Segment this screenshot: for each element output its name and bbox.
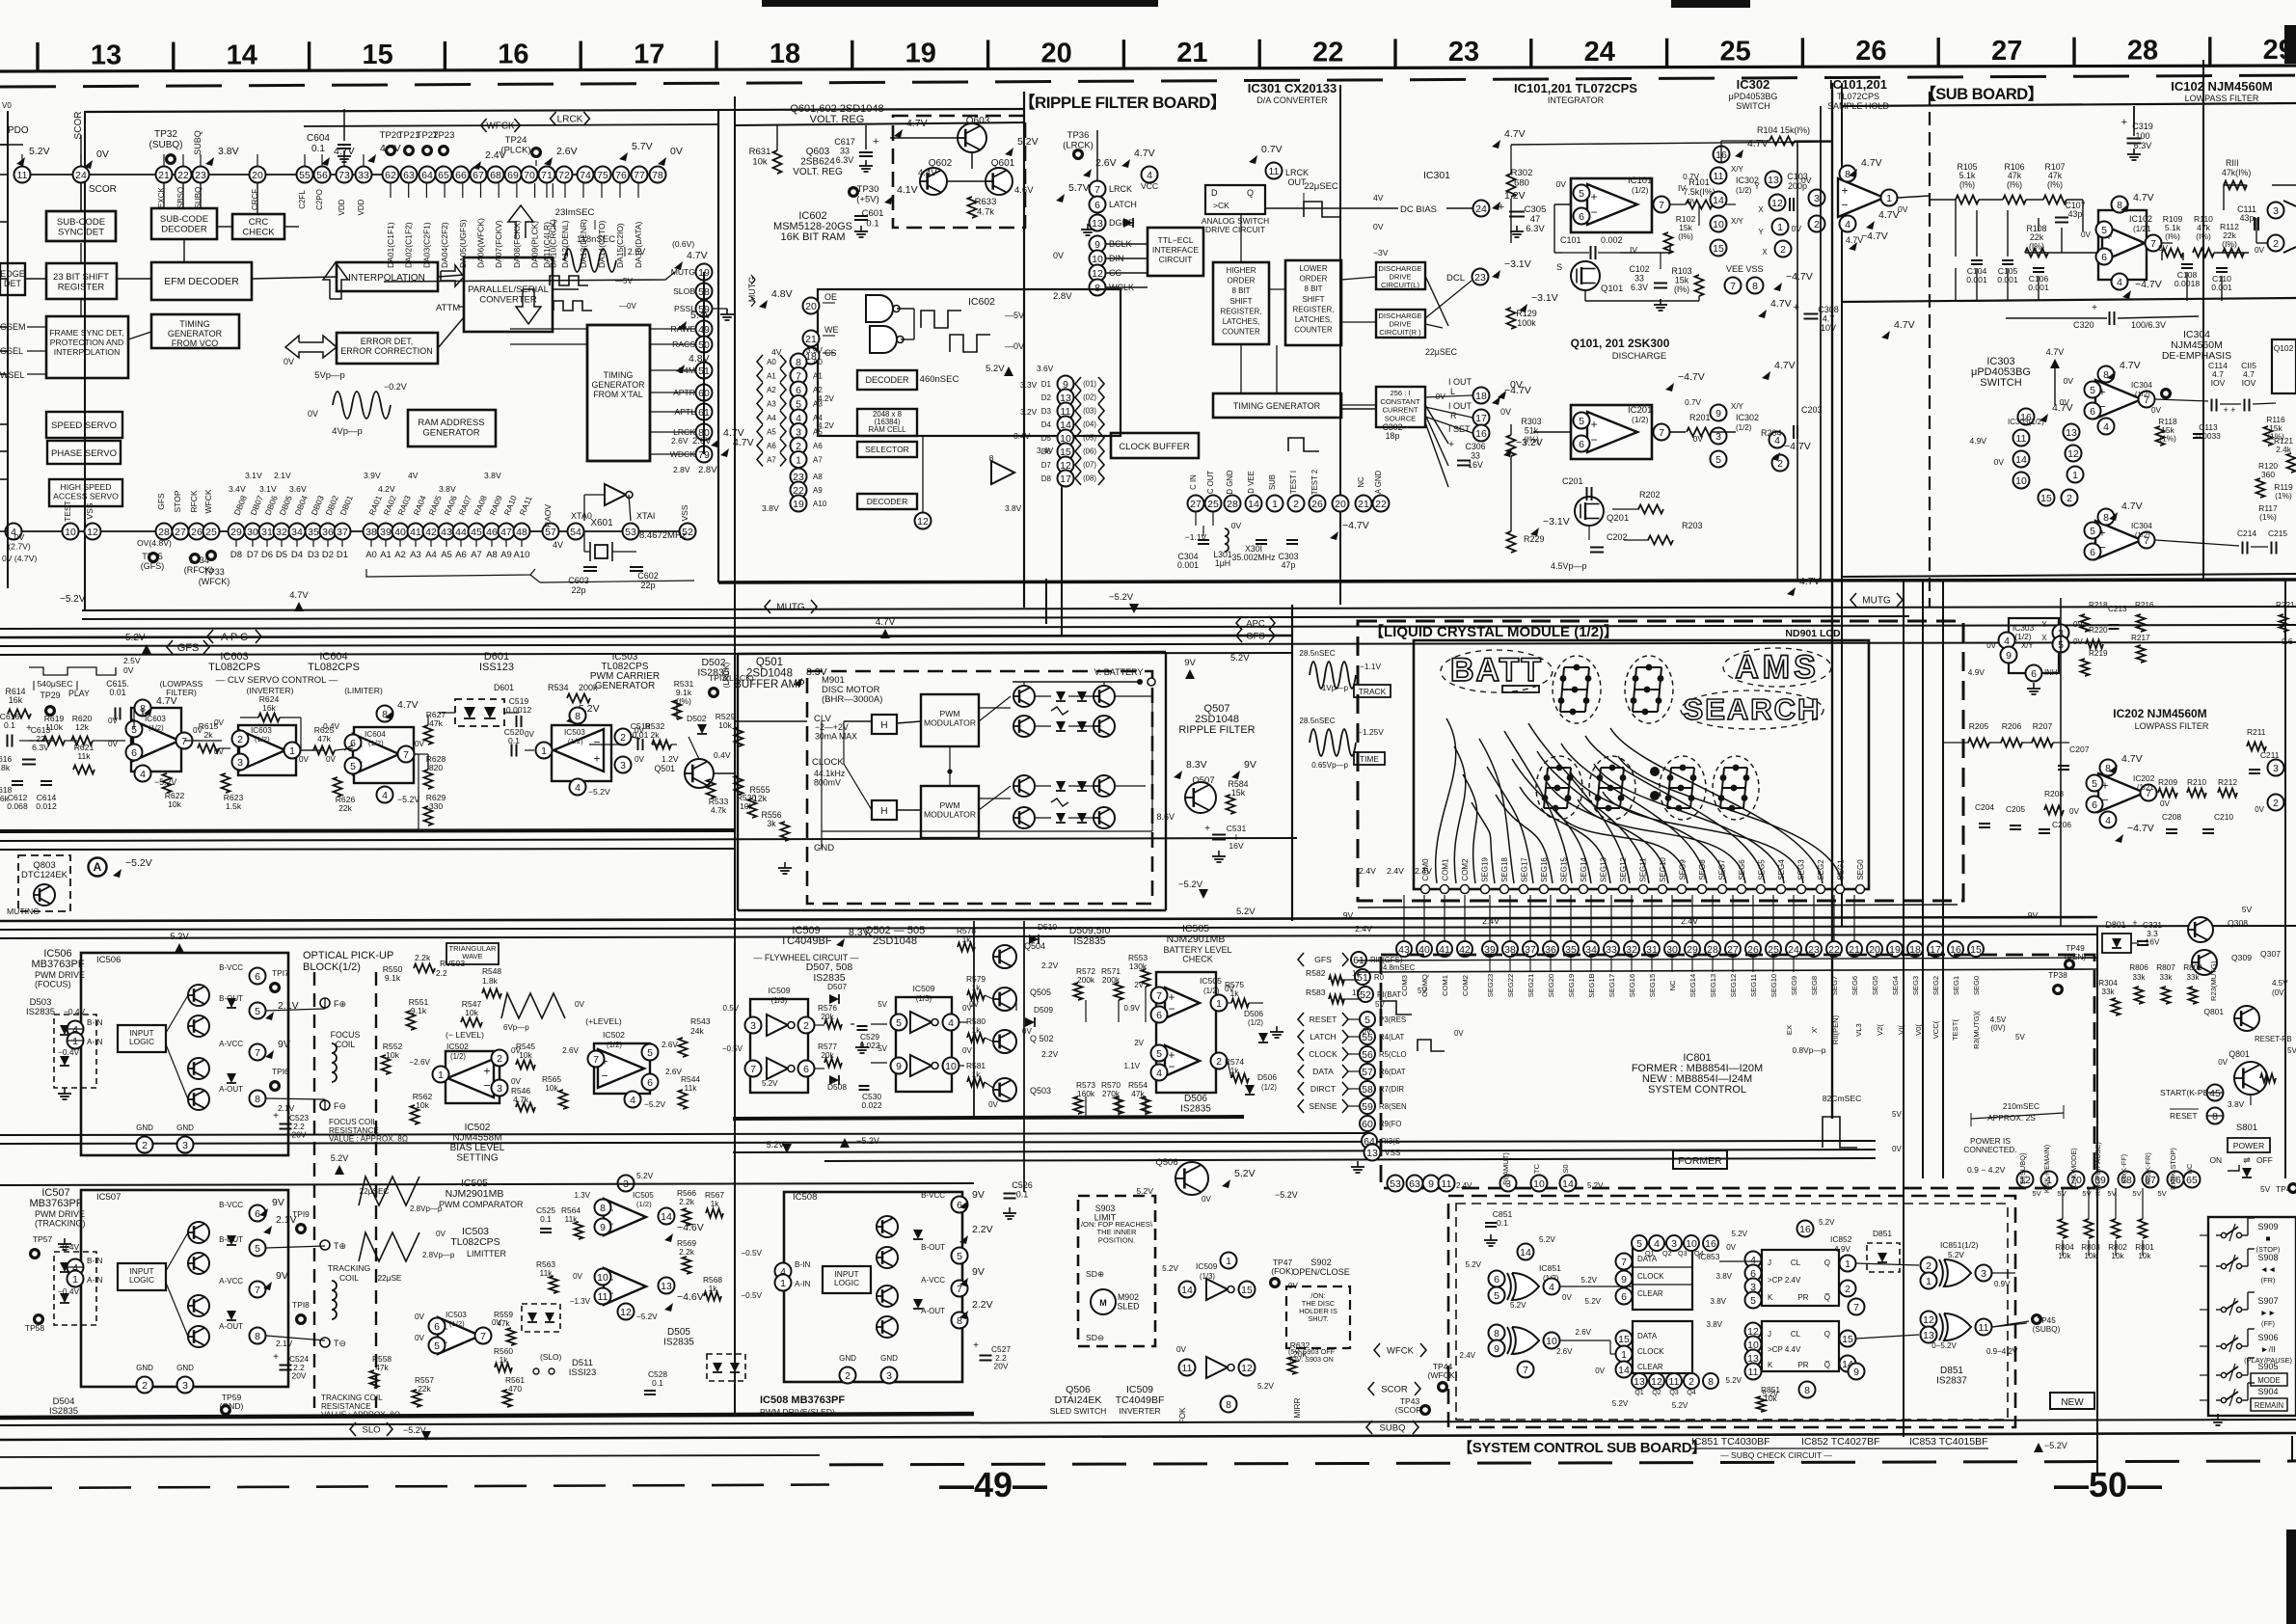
svg-text:COIL: COIL xyxy=(336,1040,356,1049)
svg-text:5: 5 xyxy=(2092,778,2097,790)
svg-text:TRACKING COIL: TRACKING COIL xyxy=(321,1394,383,1402)
svg-text:14: 14 xyxy=(1520,1247,1531,1259)
svg-text:71: 71 xyxy=(541,170,553,181)
svg-text:4.6V: 4.6V xyxy=(1014,185,1034,196)
svg-text:4.7V: 4.7V xyxy=(723,427,744,439)
box 23 BIT SHIFT REGISTER xyxy=(46,263,117,299)
svg-text:SEG6: SEG6 xyxy=(1850,976,1859,995)
wire bottom line y1477 xyxy=(0,1420,2296,1425)
svg-text:S0: S0 xyxy=(1561,1164,1570,1173)
svg-text:R203: R203 xyxy=(1682,521,1703,530)
svg-text:2.4V: 2.4V xyxy=(1415,866,1432,876)
svg-text:+: + xyxy=(593,751,600,765)
svg-text:22μSEC: 22μSEC xyxy=(1425,347,1458,357)
svg-text:16k: 16k xyxy=(9,695,23,705)
svg-text:DA04(C2F2): DA04(C2F2) xyxy=(440,222,449,268)
svg-text:0V: 0V xyxy=(96,149,109,160)
svg-text:IC302: IC302 xyxy=(1736,413,1759,422)
svg-text:0V: 0V xyxy=(2151,406,2162,415)
svg-text:4.7V: 4.7V xyxy=(2121,501,2143,512)
svg-text:R207: R207 xyxy=(2033,721,2053,731)
svg-text:CHECK: CHECK xyxy=(242,228,275,238)
left pin column RAWE RACS C4M APTR APTL LRCK WDCK rows xyxy=(696,264,713,281)
svg-text:8: 8 xyxy=(1226,1399,1231,1411)
svg-text:D5: D5 xyxy=(276,550,287,560)
svg-text:4.7V: 4.7V xyxy=(1846,235,1863,245)
svg-text:0V: 0V xyxy=(284,357,294,366)
box RAM ADDRESS GENERATOR xyxy=(408,410,496,447)
opamp IC505 a xyxy=(604,1199,646,1235)
svg-text:SPEED SERVO: SPEED SERVO xyxy=(51,420,117,431)
svg-text:0V: 0V xyxy=(123,665,134,675)
svg-text:CLEAR: CLEAR xyxy=(1637,1289,1663,1298)
svg-text:−: − xyxy=(1168,1002,1175,1015)
svg-text:—5V: —5V xyxy=(615,277,633,285)
svg-text:EX: EX xyxy=(1785,1025,1794,1035)
svg-text:9V: 9V xyxy=(272,1197,284,1208)
svg-text:3.8V: 3.8V xyxy=(1716,1272,1733,1281)
svg-text:0V: 0V xyxy=(1202,1195,1211,1204)
labels GFS R0 BATT pins right column xyxy=(1351,952,1366,967)
svg-text:BATT: BATT xyxy=(1450,652,1543,689)
svg-text:4V: 4V xyxy=(408,471,419,480)
svg-text:9: 9 xyxy=(1853,1367,1859,1378)
svg-text:9: 9 xyxy=(2006,650,2012,662)
svg-text:FRAME SYNC DET,: FRAME SYNC DET, xyxy=(49,328,123,338)
svg-text:2.6V: 2.6V xyxy=(665,1068,682,1076)
svg-text:−0.5V: −0.5V xyxy=(741,1249,762,1258)
svg-text:3.8V: 3.8V xyxy=(1707,1320,1723,1329)
svg-text:6: 6 xyxy=(2092,799,2097,811)
wire vertical trunk x1864 xyxy=(1796,142,1798,580)
svg-text:A P C: A P C xyxy=(221,632,248,643)
svg-text:8.4672MHz: 8.4672MHz xyxy=(639,530,687,541)
svg-text:0.01: 0.01 xyxy=(109,688,125,697)
svg-text:2: 2 xyxy=(2273,798,2279,809)
svg-text:11: 11 xyxy=(1442,1178,1452,1190)
svg-text:5.2V: 5.2V xyxy=(29,146,50,157)
svg-text:18: 18 xyxy=(770,39,800,69)
svg-text:IC101,201: IC101,201 xyxy=(1829,77,1887,92)
svg-text:DA06(WFCK): DA06(WFCK) xyxy=(476,218,486,268)
svg-text:INTERPOLATION: INTERPOLATION xyxy=(348,273,425,284)
svg-text:R6(DAT: R6(DAT xyxy=(1379,1068,1406,1076)
svg-text:2SB624: 2SB624 xyxy=(800,157,835,168)
op-amp IC101 1/2 sample hold right xyxy=(1838,178,1884,217)
pin row2 group y551 xyxy=(14,530,688,532)
svg-text:A6: A6 xyxy=(813,442,823,450)
LCD 7-segment digit 6 bottom xyxy=(1724,767,1747,769)
diodes D504 left xyxy=(54,1252,96,1325)
svg-text:PWM COMPARATOR: PWM COMPARATOR xyxy=(439,1200,524,1209)
svg-text:(0V): (0V) xyxy=(1990,1024,2005,1033)
svg-text:SCOR: SCOR xyxy=(89,184,117,195)
svg-text:D8: D8 xyxy=(1041,474,1052,483)
svg-text:+: + xyxy=(1590,190,1597,203)
svg-text:5.2V: 5.2V xyxy=(1948,1251,1964,1259)
svg-text:14: 14 xyxy=(1248,499,1259,510)
svg-text:RIII: RIII xyxy=(2226,158,2239,168)
svg-text:0V: 0V xyxy=(1362,1027,1371,1036)
svg-text:A8: A8 xyxy=(813,473,823,481)
wire LCD bottom bus y940 xyxy=(1358,905,1958,907)
svg-text:24: 24 xyxy=(1584,37,1615,68)
svg-text:(1/2): (1/2) xyxy=(1736,186,1752,195)
second opamp IC304 lower xyxy=(2095,521,2142,559)
pins 3 right top xyxy=(618,1176,635,1192)
svg-text:67: 67 xyxy=(473,170,484,181)
svg-text:SUBQ: SUBQ xyxy=(193,130,203,155)
svg-text:2: 2 xyxy=(142,1140,148,1151)
svg-text:0V: 0V xyxy=(511,1077,522,1086)
wire sub board bus y110 xyxy=(1842,103,2296,106)
svg-text:IC603: IC603 xyxy=(145,715,166,723)
svg-text:3.6V: 3.6V xyxy=(289,484,307,494)
svg-text:−: − xyxy=(1841,199,1848,212)
svg-text:10: 10 xyxy=(597,1272,608,1284)
svg-text:K: K xyxy=(1768,1361,1773,1369)
svg-text:7: 7 xyxy=(1621,1257,1627,1268)
svg-text:−3V: −3V xyxy=(1373,248,1389,257)
svg-text:DIRCT: DIRCT xyxy=(1310,1084,1337,1094)
transistor Q502 xyxy=(993,1030,1016,1053)
svg-text:SEG23: SEG23 xyxy=(1486,974,1495,997)
svg-text:15k: 15k xyxy=(1231,788,1246,798)
svg-text:28: 28 xyxy=(1227,499,1238,510)
svg-text:IC603: IC603 xyxy=(251,726,272,735)
svg-text:0−5.2V: 0−5.2V xyxy=(1931,1341,1957,1350)
svg-text:4.7V: 4.7V xyxy=(397,699,419,711)
svg-text:PWM DRIVE(SLED): PWM DRIVE(SLED) xyxy=(760,1407,835,1417)
svg-text:RAM CELL: RAM CELL xyxy=(869,425,907,434)
resistors R804 R803 R802 R801 10k xyxy=(2059,1219,2067,1238)
pin 12 bottom RAM xyxy=(915,513,932,529)
svg-text:NC: NC xyxy=(1357,476,1365,488)
svg-text:−: − xyxy=(1590,205,1597,219)
svg-text:22μSE: 22μSE xyxy=(378,1274,402,1283)
svg-text:6Vp—p: 6Vp—p xyxy=(503,1023,529,1032)
svg-text:13: 13 xyxy=(1092,218,1103,230)
svg-text:2: 2 xyxy=(1780,244,1786,256)
box DISCHARGE DRIVE CIRCUIT(L) xyxy=(1376,262,1425,289)
svg-text:45: 45 xyxy=(471,527,482,538)
svg-text:8: 8 xyxy=(989,453,994,463)
svg-text:2: 2 xyxy=(1293,499,1299,510)
box PHASE SERVO xyxy=(47,441,121,464)
svg-text:TP58: TP58 xyxy=(25,1323,44,1333)
svg-text:H: H xyxy=(880,806,887,817)
svg-text:56: 56 xyxy=(1362,1049,1373,1061)
svg-text:2: 2 xyxy=(1814,219,1820,230)
svg-text:HIGH SPEED: HIGH SPEED xyxy=(60,482,111,492)
svg-text:LRCK: LRCK xyxy=(1285,168,1309,177)
svg-text:SEG15: SEG15 xyxy=(1560,857,1569,882)
svg-text:【SYSTEM CONTROL SUB BOARD】: 【SYSTEM CONTROL SUB BOARD】 xyxy=(1458,1439,1706,1456)
svg-text:LOGIC: LOGIC xyxy=(129,1275,154,1285)
svg-text:VCC(: VCC( xyxy=(1931,1020,1940,1039)
svg-text:RFCK: RFCK xyxy=(189,490,199,512)
box IC602 RAM outline xyxy=(818,289,1121,436)
svg-text:Q501: Q501 xyxy=(654,764,675,773)
box IC507 outline xyxy=(81,1190,288,1387)
svg-text:5.2V: 5.2V xyxy=(1236,907,1256,917)
svg-text:L: L xyxy=(1450,387,1455,396)
svg-text:4.5Vp—p: 4.5Vp—p xyxy=(1551,561,1587,571)
svg-text:0.1: 0.1 xyxy=(1016,1190,1029,1200)
svg-text:7: 7 xyxy=(1094,184,1100,196)
svg-text:2.8V: 2.8V xyxy=(1053,291,1072,302)
svg-text:IC502: IC502 xyxy=(603,1030,625,1040)
svg-text:TPI8: TPI8 xyxy=(292,1300,310,1310)
svg-text:34: 34 xyxy=(291,527,303,538)
svg-text:(1/2): (1/2) xyxy=(568,737,583,745)
svg-text:IC852 TC4027BF: IC852 TC4027BF xyxy=(1801,1436,1880,1448)
svg-text:20V: 20V xyxy=(292,1371,307,1381)
svg-text:GND: GND xyxy=(814,843,834,853)
op-amp IC304 xyxy=(2095,380,2142,419)
svg-text:11: 11 xyxy=(1669,1376,1680,1388)
svg-text:DA07(FCKV): DA07(FCKV) xyxy=(494,220,503,268)
svg-text:IC852: IC852 xyxy=(1830,1234,1852,1244)
svg-text:23: 23 xyxy=(195,170,206,181)
svg-text:S907: S907 xyxy=(2257,1296,2278,1306)
svg-text:(1/2): (1/2) xyxy=(450,1052,466,1061)
svg-text:RI4(K-STOP): RI4(K-STOP) xyxy=(2169,1148,2177,1190)
svg-text:X/Y: X/Y xyxy=(1731,402,1744,411)
svg-text:ISSI23: ISSI23 xyxy=(569,1367,597,1378)
svg-text:0V: 0V xyxy=(1500,407,1511,417)
svg-text:TEST(: TEST( xyxy=(1951,1019,1959,1041)
svg-text:(1/21: (1/21 xyxy=(2133,225,2151,233)
svg-text:DTC124EK: DTC124EK xyxy=(21,870,68,880)
svg-text:2.2k: 2.2k xyxy=(679,1247,695,1257)
svg-text:SEG13: SEG13 xyxy=(1709,974,1717,997)
svg-text:ON: ON xyxy=(2209,1155,2222,1165)
svg-text:800mV: 800mV xyxy=(814,777,841,787)
svg-text:5.2V: 5.2V xyxy=(1612,1399,1629,1408)
bridge transistors upper xyxy=(1013,686,1035,707)
svg-text:SLO: SLO xyxy=(362,1424,380,1435)
svg-text:R212: R212 xyxy=(2218,777,2237,787)
svg-text:Q101: Q101 xyxy=(1601,284,1623,294)
svg-text:A2: A2 xyxy=(394,550,406,560)
svg-text:15: 15 xyxy=(1241,1285,1253,1296)
svg-text:KI(K-PB/PAUSE): KI(K-PB/PAUSE) xyxy=(2093,1142,2102,1196)
svg-text:C206: C206 xyxy=(2052,820,2071,829)
svg-text:X: X xyxy=(1758,205,1764,214)
pins A8 A9 A10 xyxy=(791,469,807,485)
box DECODER 2 xyxy=(857,494,917,509)
svg-text:2: 2 xyxy=(237,734,243,745)
lower da: second integrator IC201 xyxy=(1571,405,1652,459)
svg-text:7: 7 xyxy=(1730,281,1736,292)
svg-text:4.7k: 4.7k xyxy=(513,1095,529,1104)
pins 4 1 tracking xyxy=(68,1259,84,1276)
svg-text:Q102: Q102 xyxy=(2274,343,2294,353)
svg-text:2.2k: 2.2k xyxy=(679,1197,695,1206)
svg-text:A4: A4 xyxy=(425,550,437,560)
svg-text:5: 5 xyxy=(1364,1015,1370,1026)
svg-text:17: 17 xyxy=(634,39,664,69)
svg-text:Q504: Q504 xyxy=(1024,941,1045,951)
svg-text:2.6V: 2.6V xyxy=(1556,1347,1573,1356)
box LOWER ORDER 8BIT SHIFT REGISTER LATCHES COUNTER xyxy=(1285,260,1341,345)
svg-text:A9: A9 xyxy=(813,486,823,495)
svg-text:IC303(1/2): IC303(1/2) xyxy=(2008,418,2044,426)
transistor Q501 xyxy=(685,759,714,788)
wire vertical trunk x2175 xyxy=(2096,926,2098,1475)
svg-text:47k: 47k xyxy=(317,734,332,744)
svg-text:41: 41 xyxy=(410,527,421,538)
svg-text:SYNC DET: SYNC DET xyxy=(58,228,104,238)
svg-text:360: 360 xyxy=(2261,470,2275,479)
svg-text:(1/2): (1/2) xyxy=(636,1200,652,1208)
svg-text:TC4049BF: TC4049BF xyxy=(1116,1394,1165,1406)
svg-text:8: 8 xyxy=(255,1094,260,1105)
pin row IC801 bottom inside xyxy=(1388,1176,1404,1192)
svg-text:5.2V: 5.2V xyxy=(331,1153,349,1163)
svg-text:TRACK: TRACK xyxy=(1359,687,1387,696)
svg-text:+: + xyxy=(1841,183,1848,197)
svg-text:IC102 NJM4560M: IC102 NJM4560M xyxy=(2171,79,2273,94)
svg-text:−5.2V: −5.2V xyxy=(644,1099,666,1109)
wire bus y1194 xyxy=(733,1150,1876,1152)
wire right band verticals xyxy=(1922,617,1924,918)
wire bottom line y1510 partial xyxy=(0,1455,820,1457)
svg-text:5.2V: 5.2V xyxy=(1136,1186,1153,1196)
svg-text:ORDER: ORDER xyxy=(1228,277,1256,285)
svg-text:0V: 0V xyxy=(308,409,318,419)
svg-text:3.1V: 3.1V xyxy=(259,484,277,494)
svg-text:(− LEVEL): (− LEVEL) xyxy=(446,1030,484,1040)
svg-text:0V: 0V xyxy=(670,146,683,157)
svg-text:0V: 0V xyxy=(299,755,310,764)
svg-text:>CK: >CK xyxy=(1213,201,1229,210)
svg-text:WSEL: WSEL xyxy=(0,370,25,380)
svg-text:R548: R548 xyxy=(482,966,501,976)
pin row da bottom xyxy=(1188,496,1204,512)
svg-text:B-VCC: B-VCC xyxy=(219,963,243,972)
svg-text:0V: 0V xyxy=(525,730,535,739)
svg-text:6: 6 xyxy=(1094,200,1100,211)
svg-text:8: 8 xyxy=(1752,281,1758,292)
svg-text:TEST 2: TEST 2 xyxy=(1310,470,1319,495)
svg-text:9V: 9V xyxy=(2028,910,2039,920)
svg-text:−4.7V: −4.7V xyxy=(1342,520,1369,531)
svg-text:IC301 CX20133: IC301 CX20133 xyxy=(1248,81,1337,95)
svg-text:0V: 0V xyxy=(988,1100,998,1109)
svg-text:RESET: RESET xyxy=(2170,1111,2198,1121)
svg-text:SELECTOR: SELECTOR xyxy=(865,445,909,454)
svg-text:10: 10 xyxy=(1546,1336,1557,1347)
svg-text:23ImSEC: 23ImSEC xyxy=(555,207,595,218)
wire vertical trunk x1085 xyxy=(1045,579,1047,624)
box TIMING GENERATOR da xyxy=(1213,393,1341,418)
hollow arrow up near x348 xyxy=(323,262,348,299)
svg-text:—5V: —5V xyxy=(1005,311,1024,320)
svg-text:(I%): (I%) xyxy=(1674,284,1689,294)
svg-text:SEG17: SEG17 xyxy=(1521,857,1529,882)
box Q102 right edge xyxy=(2272,339,2296,393)
svg-text:65: 65 xyxy=(438,170,449,181)
svg-text:VALUE : APPROX. 8Ω: VALUE : APPROX. 8Ω xyxy=(329,1135,408,1144)
svg-text:1k: 1k xyxy=(1230,988,1240,998)
svg-text:IC202: IC202 xyxy=(2133,773,2155,783)
svg-text:4Vp—p: 4Vp—p xyxy=(332,426,363,437)
XOR gate IC851 b xyxy=(1512,1327,1539,1354)
opamp IC505 b xyxy=(604,1268,646,1305)
svg-text:CL: CL xyxy=(1791,1259,1801,1267)
svg-text:4.7V: 4.7V xyxy=(2120,360,2141,371)
svg-text:Q501: Q501 xyxy=(756,657,783,668)
svg-text:10: 10 xyxy=(1533,1178,1545,1190)
svg-text:7: 7 xyxy=(750,1064,756,1075)
svg-text:13: 13 xyxy=(1366,1148,1378,1159)
svg-text:22: 22 xyxy=(177,170,189,181)
wire heavy bus y861 xyxy=(0,830,735,831)
svg-text:6: 6 xyxy=(1579,211,1584,223)
svg-text:66: 66 xyxy=(455,170,467,181)
svg-text:C210: C210 xyxy=(2214,812,2233,822)
svg-text:3.1V: 3.1V xyxy=(245,471,262,480)
svg-text:2.2V: 2.2V xyxy=(972,1299,993,1311)
svg-text:CIRCUIT: CIRCUIT xyxy=(1159,255,1194,264)
wire Q501 to modulator xyxy=(714,772,735,774)
svg-text:SEG18: SEG18 xyxy=(1500,857,1509,882)
svg-text:TIMING: TIMING xyxy=(179,319,210,329)
svg-text:IC508: IC508 xyxy=(793,1192,817,1203)
svg-text:Q: Q xyxy=(1247,188,1254,198)
svg-text:R129: R129 xyxy=(1516,309,1537,318)
svg-text:13: 13 xyxy=(661,1281,672,1292)
svg-text:12: 12 xyxy=(1092,268,1103,280)
svg-text:−5.2V: −5.2V xyxy=(60,594,86,605)
svg-text:10V: 10V xyxy=(1821,323,1836,333)
svg-text:2V: 2V xyxy=(1134,1039,1144,1047)
box HIGH SPEED ACCESS SERVO xyxy=(49,479,122,506)
svg-text:2.1V: 2.1V xyxy=(276,1339,293,1348)
svg-text:2k: 2k xyxy=(203,730,213,740)
svg-text:R216: R216 xyxy=(2135,601,2154,609)
svg-text:DET: DET xyxy=(4,279,22,288)
wire vertical trunk x1888 xyxy=(1820,106,1822,579)
svg-text:4.7V: 4.7V xyxy=(1134,148,1155,159)
svg-text:IC853: IC853 xyxy=(1698,1252,1720,1261)
svg-text:4.8mSEC: 4.8mSEC xyxy=(1383,963,1416,972)
svg-text:6: 6 xyxy=(1579,439,1584,450)
svg-text:OE: OE xyxy=(824,292,837,302)
svg-text:2.1V: 2.1V xyxy=(278,1103,295,1113)
svg-text:SEG16: SEG16 xyxy=(1540,857,1549,882)
svg-text:0V: 0V xyxy=(2158,244,2168,253)
svg-text:TP33: TP33 xyxy=(203,567,225,577)
svg-text:PWM DRIVE: PWM DRIVE xyxy=(35,1209,85,1219)
F+ F- pads xyxy=(320,998,330,1008)
svg-text:(1/3): (1/3) xyxy=(1200,1272,1215,1281)
svg-text:5V: 5V xyxy=(2132,1189,2142,1198)
svg-text:7: 7 xyxy=(2150,238,2156,250)
fet Q201 xyxy=(1575,497,1604,526)
svg-text:75: 75 xyxy=(597,170,608,181)
svg-text:−0.5V: −0.5V xyxy=(741,1291,762,1300)
svg-text:43p: 43p xyxy=(2240,213,2255,223)
svg-text:DISCHARGE: DISCHARGE xyxy=(1612,351,1666,362)
svg-text:−4.7V: −4.7V xyxy=(1861,230,1888,242)
svg-text:54: 54 xyxy=(570,527,581,538)
svg-text:2.4V: 2.4V xyxy=(1387,866,1404,876)
svg-text:5V: 5V xyxy=(878,1044,887,1053)
svg-text:D505: D505 xyxy=(667,1327,690,1338)
